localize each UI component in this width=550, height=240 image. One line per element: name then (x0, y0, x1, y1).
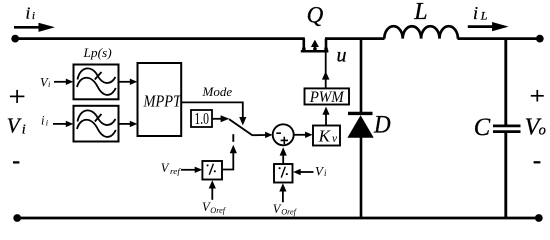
wire DIV2 to SUM1 (282, 155, 284, 164)
arrow iL current direction (468, 25, 494, 28)
label + (left) (10, 90, 25, 103)
inductor L1 (384, 26, 458, 38)
svg-text:1.0: 1.0 (194, 109, 209, 128)
filter block F1 box (74, 65, 119, 100)
wire F2 to MPPT (119, 123, 131, 125)
label Vi (filter F1 input) (40, 75, 51, 89)
label Vi (left port voltage) (7, 114, 26, 138)
node input bottom terminal (13, 214, 21, 222)
wire top rail right segment (inductor to output) (458, 37, 541, 40)
node input top terminal (11, 35, 19, 43)
block constant 1.0 (191, 110, 212, 127)
filter block F2 box (74, 106, 119, 142)
wire DIV1 to switch throw B (222, 153, 233, 170)
wire bottom rail (17, 217, 539, 220)
label ii (filter F2 input) (41, 114, 49, 128)
svg-text:K: K (318, 126, 332, 145)
svg-text:V: V (161, 161, 170, 175)
wire PWM to MOSFET gate (325, 52, 327, 88)
svg-text:v: v (332, 133, 338, 145)
filter block F2 sine icon (77, 110, 116, 137)
svg-text:i: i (473, 3, 478, 23)
svg-text:L: L (480, 8, 488, 22)
label L (413, 0, 427, 25)
block Kv gain (313, 126, 340, 146)
label Vi (DIV2 right input) (315, 163, 327, 178)
filter block F1 sine icon (77, 68, 116, 95)
label iL inductor current (473, 3, 488, 23)
wire switch pole to summing junction (252, 134, 266, 136)
svg-text:i: i (32, 11, 35, 22)
wire SUM1 to Kv (293, 134, 306, 136)
label u (gate signal) (337, 45, 347, 67)
label Lp(s) (82, 45, 111, 60)
wire diode branch (bottom) (360, 137, 363, 219)
switch S1 throw B stub (232, 134, 234, 142)
svg-text:C: C (474, 114, 491, 141)
wire ii to F2 (53, 123, 67, 125)
svg-text:V: V (7, 114, 22, 138)
svg-text:i: i (26, 4, 31, 23)
wire top rail left segment (15, 37, 305, 40)
label Vref (161, 161, 182, 176)
label - (right) (534, 161, 541, 163)
wire Vi to DIV2 (300, 171, 314, 173)
label ii input current (26, 4, 36, 23)
wire Vref to DIV1 (181, 169, 196, 171)
wire F1 to MPPT (119, 81, 131, 83)
svg-text:Oref: Oref (210, 206, 226, 215)
wire Kv to PWM (325, 113, 327, 126)
wire VOref to DIV1 (211, 188, 213, 200)
label Mode (202, 84, 233, 99)
label D (373, 112, 391, 139)
label C (474, 114, 491, 141)
switch S1 blade (229, 119, 253, 135)
svg-text:Q: Q (307, 2, 324, 27)
summing junction SUM1 (273, 124, 294, 145)
label - (left) (13, 161, 19, 163)
svg-text:o: o (539, 123, 546, 139)
svg-text:Lp(s): Lp(s) (82, 45, 111, 60)
svg-text:u: u (337, 45, 347, 67)
wire capacitor branch (top) (504, 39, 507, 125)
label Q (307, 2, 324, 27)
svg-text:Oref: Oref (281, 208, 297, 217)
wire top rail middle segment (MOSFET to inductor) (325, 37, 385, 40)
wire MPPT Mode output to switch (181, 102, 243, 117)
svg-text:i: i (41, 114, 45, 128)
capacitor C1 (493, 126, 521, 132)
wire diode branch (top) (360, 39, 363, 112)
wire Vi to F1 (54, 81, 67, 83)
svg-text:MPPT: MPPT (143, 92, 183, 111)
svg-text:L: L (413, 0, 427, 25)
node output bottom terminal (535, 214, 543, 222)
label Voref (under DIV2) (273, 202, 298, 217)
wire Voref to DIV2 (282, 191, 284, 203)
block divider DIV1 (Vref/VOref) (202, 161, 222, 180)
svg-text:Mode: Mode (202, 84, 233, 99)
block PWM (305, 88, 350, 104)
label + (right) (531, 90, 544, 102)
label Vo output voltage (525, 115, 546, 141)
label VOref (under DIV1) (202, 200, 227, 215)
svg-text:PWM: PWM (309, 89, 345, 106)
diode D1 (347, 113, 373, 137)
arrow ii current direction (14, 26, 40, 29)
wire 1.0 to switch throw A (212, 118, 221, 120)
transistor Q1 MOSFET switch (301, 39, 329, 52)
svg-text:i: i (22, 123, 26, 138)
block divider DIV2 (VOref/Vi) (274, 164, 293, 183)
wire capacitor branch (bottom) (504, 133, 507, 218)
node output top terminal (536, 35, 544, 43)
block MPPT (138, 63, 182, 136)
svg-text:D: D (373, 112, 391, 139)
